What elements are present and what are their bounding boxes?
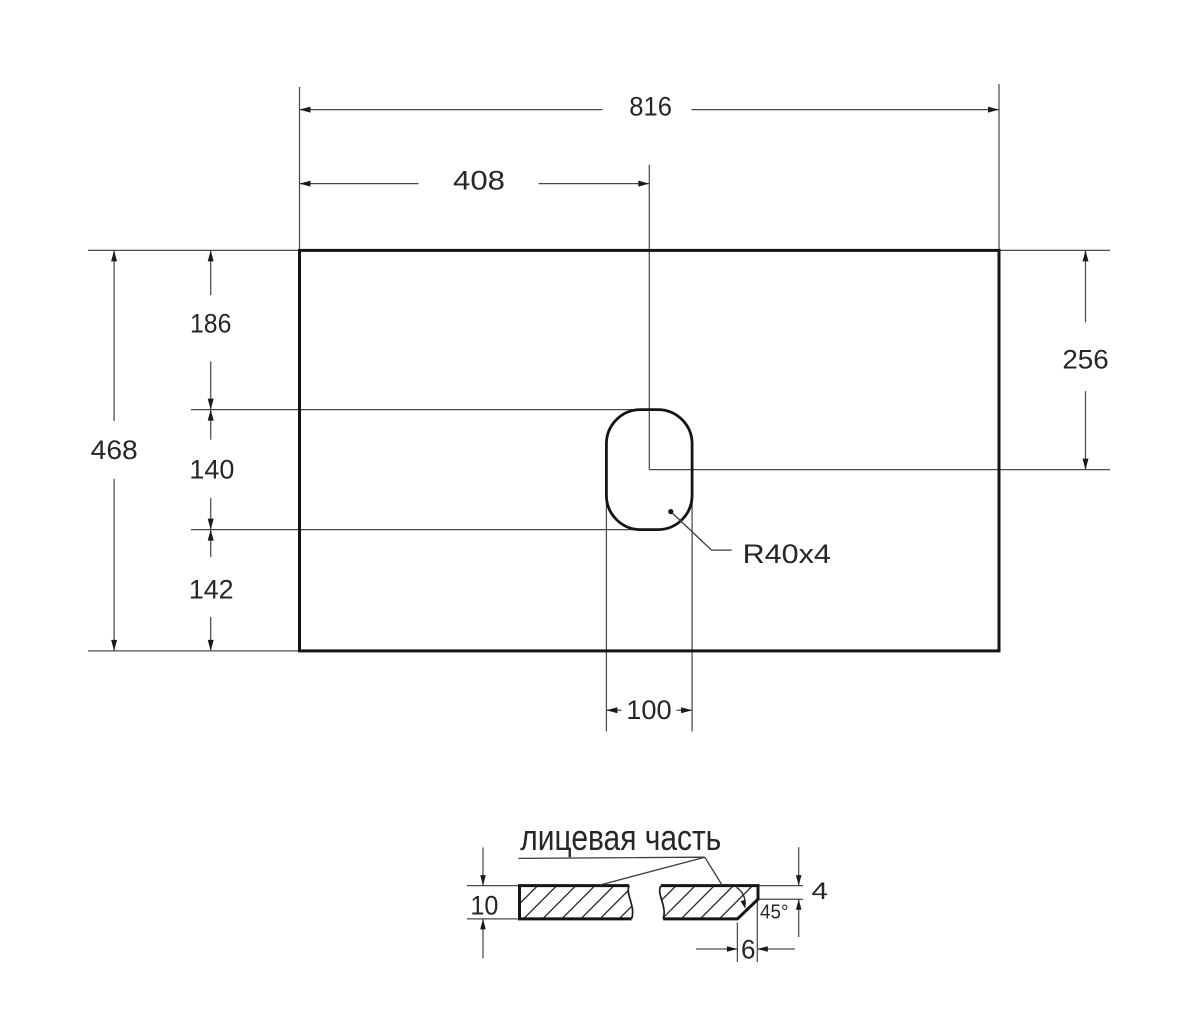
svg-text:10: 10 — [470, 891, 498, 921]
svg-text:468: 468 — [91, 435, 138, 465]
svg-text:140: 140 — [189, 455, 234, 485]
svg-text:186: 186 — [190, 309, 231, 339]
svg-text:816: 816 — [629, 91, 672, 121]
svg-text:256: 256 — [1062, 344, 1108, 374]
svg-text:142: 142 — [189, 575, 234, 605]
svg-text:408: 408 — [453, 165, 505, 195]
svg-text:R40x4: R40x4 — [743, 539, 831, 569]
svg-text:45°: 45° — [760, 902, 789, 924]
svg-text:4: 4 — [812, 878, 829, 905]
svg-text:100: 100 — [626, 695, 671, 725]
svg-text:6: 6 — [741, 935, 756, 965]
svg-text:лицевая часть: лицевая часть — [520, 817, 721, 858]
